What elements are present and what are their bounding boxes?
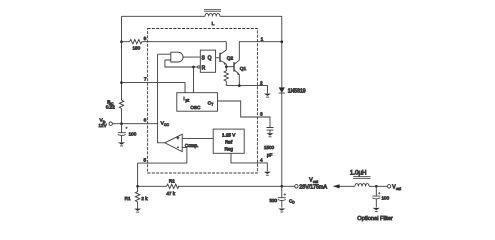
inductor 1.0uH [355, 184, 369, 187]
wire R to osc [193, 67, 195, 93]
terminal Vin [109, 122, 112, 125]
wire pin8 rail [148, 41, 227, 43]
comparator [165, 134, 182, 151]
capacitor Co 330uF [278, 186, 286, 207]
wire and lower input wrap [165, 60, 194, 67]
oscillator box [177, 93, 218, 112]
ground CT [267, 133, 274, 135]
resistor R2 47k [167, 184, 180, 188]
node junction R1 [136, 185, 139, 188]
node junction R [192, 66, 195, 69]
svg-text:Q2: Q2 [227, 55, 234, 61]
latch R bubble [198, 66, 200, 68]
svg-text:R: R [202, 65, 206, 71]
svg-text:7: 7 [144, 77, 147, 83]
svg-text:out: out [313, 180, 318, 184]
svg-text:Q1: Q1 [240, 66, 247, 72]
ground pin4 [264, 172, 271, 174]
svg-text:pF: pF [267, 152, 273, 157]
ground R1 [137, 204, 139, 208]
wire and output to S [183, 56, 200, 58]
ground pin2 [264, 94, 271, 96]
wire optional filter with arrow [339, 185, 355, 187]
terminal Vout [295, 185, 298, 188]
wire pin5 row [138, 162, 187, 164]
resistor Q1 base [224, 67, 228, 86]
svg-text:5: 5 [143, 157, 146, 163]
latch SR [200, 50, 215, 72]
wire comp plus input [182, 138, 213, 140]
node junction pin7 [120, 81, 123, 84]
diode 1N5819 [281, 16, 283, 87]
svg-text:1.0µH: 1.0µH [350, 169, 367, 176]
svg-text:1500: 1500 [264, 145, 275, 150]
reference box 1.25V [213, 129, 244, 153]
transistor Q1 [233, 62, 235, 71]
terminal Vout filtered [387, 185, 390, 188]
wire filter out [369, 185, 387, 187]
and-gate U1a [171, 52, 183, 62]
svg-text:100: 100 [382, 195, 390, 200]
svg-text:out: out [396, 187, 401, 191]
svg-text:100: 100 [129, 131, 137, 136]
svg-text:CC: CC [164, 123, 169, 127]
node junction Q2 emitter [225, 65, 228, 68]
svg-text:1N5819: 1N5819 [288, 89, 306, 95]
wire top rail [122, 15, 282, 17]
svg-text:R2: R2 [169, 179, 175, 184]
resistor Rsc 0.22 [119, 100, 123, 111]
svg-text:OSC: OSC [190, 105, 201, 110]
wire pin5 drop [137, 163, 139, 186]
node junction at 180 resistor [120, 40, 123, 43]
svg-text:Optional Filter: Optional Filter [357, 216, 393, 222]
wire and inputs [158, 54, 171, 60]
wire Q output to Q2 base [216, 57, 220, 59]
plus input cap [125, 127, 127, 129]
node junction pin1 [280, 40, 283, 43]
svg-text:330: 330 [269, 198, 277, 203]
node junction filter [375, 185, 378, 188]
svg-text:I: I [183, 96, 184, 101]
svg-text:R1: R1 [125, 196, 131, 201]
wire left rail [121, 16, 123, 123]
svg-text:1.25 V: 1.25 V [222, 133, 236, 138]
wire output rail [138, 185, 295, 187]
svg-text:L: L [212, 21, 215, 27]
svg-text:8: 8 [144, 36, 147, 42]
svg-text:pk: pk [186, 98, 190, 102]
inductor L [205, 13, 220, 16]
wire Vin row to Vcc [112, 123, 157, 125]
wire R input [194, 66, 198, 68]
svg-text:+: + [177, 136, 180, 141]
node junction output [280, 185, 283, 188]
ground input cap [118, 142, 125, 144]
svg-text:2 k: 2 k [141, 196, 148, 201]
svg-text:28V/175mA: 28V/175mA [299, 184, 327, 190]
node junction Q1 emitter [238, 84, 241, 87]
svg-text:S: S [202, 56, 206, 62]
node junction Vin [120, 122, 123, 125]
capacitor CT 1500pF [267, 128, 274, 134]
wire Q1 base lead [226, 66, 234, 68]
wire comp minus input [182, 148, 187, 164]
wire CT to pin3 [218, 101, 271, 127]
ground filter cap [373, 208, 380, 210]
transistor Q2 [219, 53, 221, 62]
svg-text:12V: 12V [99, 123, 108, 128]
svg-text:Q: Q [208, 56, 212, 62]
wire Q2 collector [225, 42, 227, 50]
svg-text:0.22: 0.22 [106, 105, 115, 110]
svg-text:-: - [177, 145, 179, 150]
svg-text:T: T [211, 102, 213, 106]
ground Co [278, 209, 285, 211]
svg-text:180: 180 [132, 46, 140, 51]
svg-text:6: 6 [144, 118, 147, 124]
capacitor 100uF input [118, 124, 126, 142]
IC dashed box MC34063A [148, 29, 258, 174]
svg-text:O: O [292, 201, 295, 205]
wire comparator output vertical [158, 54, 165, 143]
wire ref to pin4 [231, 153, 267, 171]
plus filter cap [378, 192, 380, 194]
wire pin7 to osc [122, 83, 186, 93]
wire Q1 collector pin1 [239, 42, 281, 61]
resistor R1 2k [135, 186, 139, 204]
wire pin2 row [226, 86, 267, 94]
svg-text:Reg: Reg [224, 147, 233, 152]
capacitor filter 100uF [372, 186, 380, 207]
svg-text:Ref: Ref [225, 140, 233, 145]
svg-text:47 k: 47 k [166, 191, 175, 196]
resistor 180 [122, 40, 148, 44]
